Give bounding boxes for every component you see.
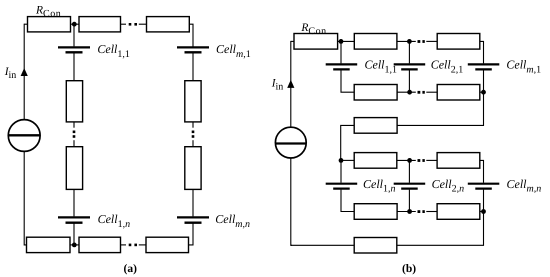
node: (a) column 1 ellipsis dots (73, 131, 76, 134)
node: (a) bottom rail ellipsis dots (129, 244, 132, 247)
wire: (a) column m from corner to Cell m,1 handled above; battery to resistor (192, 53, 194, 80)
wire: (b) group-n bottom rail R1 to column 2 node and ellipsis stubs (397, 211, 416, 213)
wire: (a) column m resistor to Cell m,n (192, 189, 194, 216)
wire: (a) bottom rail dotted continuation stubs (121, 244, 127, 246)
node: (b) top rail ellipsis dots (418, 40, 421, 43)
resistor (a) column 1 lower (66, 147, 82, 190)
node: (a) bottom junction of column 1 (72, 243, 77, 248)
wire: (b) right vertical from group-1 bottom node down to middle resistor (397, 92, 483, 125)
wire: (b) top-right corner into column m (480, 41, 484, 63)
wire: (b) group-n column m battery to bottom node (483, 190, 485, 212)
wire: (b) group-n top rail R1 to column 2 node and ellipsis stubs (397, 159, 416, 161)
resistor (b) group-1 bottom rail R1 (354, 85, 397, 101)
wire: (b) right vertical from group-n bottom node to bottom wire (397, 212, 484, 246)
wire: (b) group-n column 1 node to Cell 1,n (340, 160, 342, 182)
battery Cell m,1 (a) (177, 46, 209, 48)
wire: (a) column m battery to bottom-right corner (189, 224, 194, 245)
svg-text:(a): (a) (124, 263, 138, 275)
wire: (b) group-n top-right corner into column m (480, 160, 484, 182)
resistor (b) inter-group middle R (354, 118, 397, 134)
resistor R_Con (b) (294, 34, 338, 50)
node: (b) group-n top rail junction column 1 (339, 158, 344, 163)
resistor (a) top rail R2 (79, 17, 121, 32)
battery Cell 2,n (b) (394, 183, 426, 185)
resistor (b) group-n bottom rail R1 (354, 204, 397, 220)
node: (b) group-n bottom rail ellipsis dots (418, 210, 421, 213)
resistor (b) top rail R2 (354, 34, 397, 50)
resistor (a) column m upper (185, 81, 201, 122)
wire: (a) top-left bend and left vertical down to current source (24, 23, 27, 25)
wire: (b) column 2 battery to group-1 bottom node (408, 70, 410, 92)
wire: (b) middle resistor left lead down to group-n top rail node (341, 125, 355, 160)
battery Cell 2,1 (b) (394, 63, 426, 65)
battery Cell 1,1 (b) (326, 63, 358, 65)
node: (b) group-n bottom rail junction column m (481, 209, 486, 214)
resistor (b) group-n bottom rail R2 (437, 204, 480, 220)
wire: (b) group-n column 2 node to Cell 2,n (408, 160, 410, 182)
svg-text:(b): (b) (402, 263, 416, 275)
battery Cell 1,1 (a) (58, 46, 90, 48)
node: (b) group-1 bottom rail junction column m (481, 90, 486, 95)
node: (a) column m ellipsis dots (192, 131, 195, 134)
wire: (b) below current source to bottom-left corner (291, 158, 292, 245)
resistor (b) group-n top rail R1 (354, 153, 397, 169)
wire: (b) top-left bend and left vertical down to current source (291, 40, 294, 42)
resistor (a) bottom rail R1 (27, 237, 71, 252)
node: (b) top rail junction column 2 (407, 39, 412, 44)
wire: (b) group-1 bottom rail R2 to column m node (480, 91, 484, 93)
wire: (b) column 1 battery to group-1 bottom rail (341, 70, 354, 92)
wire: (b) group-n column 1 battery to bottom rail (341, 190, 354, 212)
wire: (b) column 1 node to Cell 1,1 (340, 41, 342, 63)
battery Cell 1,n (a) (58, 216, 90, 218)
battery Cell m,n (b) (468, 183, 500, 185)
wire: (a) below current source to bottom-left corner (24, 151, 26, 245)
resistor (a) column m lower (185, 147, 201, 190)
node: (b) group-n top rail ellipsis dots (418, 159, 421, 162)
wire: (a) bottom rail between R1 and R2 (70, 244, 79, 246)
resistor (b) bottom series R (354, 238, 397, 254)
resistor (a) column 1 upper (66, 81, 82, 122)
wire: (b) column 2 node to Cell 2,1 (408, 41, 410, 63)
resistor (a) bottom rail R3 (146, 237, 189, 252)
wire: (a) column 1 from top node to Cell 1,1 (73, 24, 75, 46)
wire: (b) top rail R2 to column 2 node and ellipsis stubs (397, 40, 416, 42)
wire: (b) column m battery to group-1 bottom node (483, 70, 485, 92)
node: (b) top rail junction column 1 (339, 39, 344, 44)
wire: (b) top rail between R_Con and R2 (338, 40, 355, 42)
wire: (a) top-right corner into column m (189, 24, 193, 46)
wire: (a) column 1 battery to bottom rail (73, 224, 75, 245)
resistor (b) top rail R3 (437, 34, 480, 50)
current source I_in (b) (275, 127, 306, 158)
resistor (b) group-1 bottom rail R2 (437, 85, 480, 101)
node: (a) current direction arrow (21, 68, 28, 76)
battery Cell m,1 (b) (468, 63, 500, 65)
wire: (a) top rail between R_Con and R2 (71, 23, 80, 25)
current source I_in (a) (8, 120, 40, 152)
wire: (a) column m ellipsis stubs (192, 122, 194, 128)
node: (b) group-1 bottom rail ellipsis dots (418, 91, 421, 94)
wire: (b) group-n bottom rail R2 to column m node (480, 211, 484, 213)
wire: (a) top rail dotted continuation stubs (121, 23, 127, 25)
wire: (a) column 1 resistor to Cell 1,n (73, 189, 75, 216)
battery Cell 1,n (b) (326, 183, 358, 185)
node: (b) group-n top rail junction column 2 (407, 158, 412, 163)
resistor (a) bottom rail R2 (79, 237, 121, 252)
node: (b) group-1 bottom rail junction column 2 (407, 90, 412, 95)
wire: (b) group-n column 2 battery to bottom node (408, 190, 410, 212)
wire: (a) column 1 ellipsis stubs (73, 122, 75, 128)
wire: (a) column 1 battery to resistor (73, 53, 75, 80)
wire: (b) bottom wire from resistor to left vertical (291, 244, 354, 246)
node: (b) group-n bottom rail junction column 2 (407, 209, 412, 214)
resistor (a) top rail R3 (147, 17, 190, 32)
resistor (b) group-n top rail R2 (437, 153, 480, 169)
battery Cell m,n (a) (177, 216, 209, 218)
node: (a) top rail ellipsis dots (129, 23, 132, 26)
resistor R_Con (a) (28, 17, 71, 32)
wire: (b) group-n top rail node to R1 (341, 159, 354, 161)
wire: (b) group-1 bottom rail R1 to column 2 node and ellipsis stubs (397, 91, 416, 93)
node: (b) current direction arrow (287, 80, 294, 88)
node: (a) top junction of column 1 (72, 22, 77, 27)
